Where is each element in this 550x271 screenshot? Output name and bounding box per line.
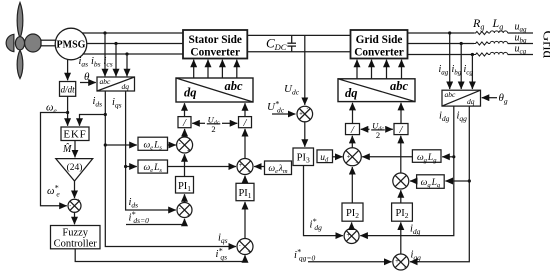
svg-text:ibg: ibg [452, 64, 462, 77]
summing junction grid d error [344, 229, 359, 244]
svg-text:ids: ids [93, 96, 103, 109]
wire grid Udc/2 to divR [387, 128, 393, 130]
wire dqabc to converter 3 [221, 60, 223, 78]
svg-text:i*ds=0: i*ds=0 [129, 210, 150, 225]
svg-text:EKF: EKF [63, 129, 86, 141]
wire stator phase c [83, 53, 184, 55]
block fuzzy controller [51, 226, 101, 250]
svg-text:abc: abc [390, 79, 409, 93]
wire i_dg to wLg1 [442, 156, 454, 158]
label Udc/2 stator [208, 115, 220, 134]
wire u_d to grid sum d [333, 156, 343, 158]
wire grid divL to dqabc [352, 103, 354, 124]
wire DC rail top [247, 34, 350, 36]
block PI3 [293, 148, 314, 166]
svg-text:θg: θg [499, 92, 508, 106]
svg-text:Grid: Grid [540, 31, 550, 59]
label Udc/2 grid [372, 121, 384, 140]
wire Udc sense [304, 35, 306, 105]
wire PI2R to grid sum q [400, 190, 402, 203]
inductor Lg phase b [490, 41, 508, 43]
svg-text:+: + [187, 149, 191, 155]
svg-text:ics: ics [104, 56, 113, 69]
svg-text:ibs: ibs [91, 56, 101, 69]
node omega_e branch [66, 111, 69, 114]
svg-text:idg: idg [410, 224, 421, 237]
block omega_g Lg 2 [417, 175, 445, 189]
wire i_qg vertical [410, 106, 469, 262]
wire stator phase b [87, 43, 183, 45]
PMSG generator [55, 28, 87, 60]
summing junction stator q error [237, 239, 253, 255]
svg-text:-: - [69, 204, 71, 210]
wire stator phase a [82, 32, 183, 34]
wire wLg1 to grid sum d [362, 156, 412, 158]
wire lambda to sum q [254, 166, 264, 168]
wire wLs1 to sum d [168, 144, 176, 146]
svg-text:Rg: Rg [472, 16, 484, 32]
svg-text:-: - [239, 243, 241, 249]
svg-text:iag: iag [439, 64, 449, 77]
svg-text:+: + [77, 199, 81, 205]
inductor Lg phase a [490, 31, 508, 33]
wire grid q error to PI2R [400, 222, 402, 254]
svg-text:ids: ids [129, 197, 139, 210]
svg-text:i*qs: i*qs [216, 247, 228, 262]
svg-text:Stator Side: Stator Side [188, 34, 241, 46]
wind turbine [6, 3, 41, 79]
wire grid dqabc to converter 2 [371, 60, 373, 79]
wire Udc sum to PI3 [304, 122, 306, 147]
svg-text:dq: dq [467, 97, 475, 106]
node i_qs wL branch [124, 165, 127, 168]
wire EKF to (24) [74, 141, 76, 158]
block omega_g Lg 1 [412, 150, 441, 164]
svg-text:-: - [355, 239, 357, 245]
svg-text:+: + [248, 250, 252, 256]
node tap b [114, 42, 117, 45]
node i_dg wLg branch [452, 155, 455, 158]
block omega_e lambda_m [265, 161, 292, 175]
svg-text:+: + [239, 163, 243, 169]
wire DC rail bottom [247, 51, 350, 53]
wire grid phase b [408, 41, 534, 45]
sum signs [69, 107, 406, 271]
svg-text:d/dt: d/dt [61, 85, 76, 95]
wire PI1R to sum q [244, 176, 246, 184]
svg-text:Controller: Controller [54, 238, 98, 249]
wire PI3 to i_dg ref [304, 166, 343, 236]
wire i_dg vertical [360, 106, 454, 236]
block (24) triangle [56, 159, 93, 181]
svg-text:+: + [395, 259, 399, 265]
wire dqabc to converter 1 [193, 60, 195, 78]
wire wLs2 to sum q [168, 166, 237, 168]
svg-text:Fuzzy: Fuzzy [62, 227, 88, 238]
svg-text:θ: θ [84, 71, 90, 83]
svg-text:-: - [356, 160, 358, 166]
wire i_qg to wLg2 [445, 180, 469, 182]
node grid tap b [460, 42, 463, 45]
svg-text:ucg: ucg [515, 44, 527, 56]
inductor Lg phase c [490, 52, 508, 54]
wire divL to dqabc [184, 103, 186, 116]
svg-text:abc: abc [225, 79, 244, 93]
wire i_ds vertical [105, 91, 236, 247]
wire grid Udc/2 to divL [361, 128, 370, 130]
block div left grid [346, 124, 360, 136]
wire grid d error to PI2L [351, 222, 353, 228]
node i_ds wL branch [104, 143, 107, 146]
summing junction stator d decouple [177, 137, 193, 153]
svg-text:ias: ias [79, 56, 89, 69]
wire d/dt to EKF [67, 96, 69, 126]
svg-text:PMSG: PMSG [57, 40, 86, 51]
wire dqabc to converter 2 [207, 60, 209, 78]
svg-text:iqs: iqs [112, 97, 122, 110]
svg-text:-: - [179, 141, 181, 147]
wire sum d to divL [184, 129, 186, 137]
svg-text:-: - [179, 206, 181, 212]
node tap a [103, 31, 106, 34]
block omega_e Ls 1 [138, 137, 168, 151]
wire sum d error to PI1L [184, 194, 186, 202]
svg-text:ω*e: ω*e [47, 184, 60, 199]
summing junction stator d error [177, 203, 192, 218]
svg-text:2: 2 [376, 130, 380, 140]
svg-text:+: + [299, 112, 303, 118]
svg-text:M̂: M̂ [62, 142, 72, 155]
wire fuzzy to i_qs ref [75, 249, 245, 262]
wire i_ds to EKF [80, 115, 106, 126]
wire (24) to speed sum [74, 181, 76, 198]
wire theta_g input [482, 97, 497, 99]
svg-text:i*qg=0: i*qg=0 [294, 248, 315, 263]
block EKF [61, 127, 89, 141]
block grid side converter [351, 30, 408, 59]
svg-text:dq: dq [122, 82, 130, 91]
shaft [41, 40, 56, 46]
wire PI1L to sum d [184, 154, 186, 176]
svg-text:Udc: Udc [284, 83, 300, 97]
wire speed sum to fuzzy [74, 212, 76, 224]
svg-text:dq: dq [184, 86, 197, 100]
wire i_ds ref [126, 219, 185, 225]
node tap c [125, 52, 128, 55]
wire grid dqabc to converter 1 [356, 60, 358, 79]
svg-text:abc: abc [445, 90, 457, 99]
block PI1 left [176, 177, 194, 194]
node grid tap c [471, 53, 474, 56]
wire i_qg ref [308, 261, 392, 263]
block PI1 right [236, 183, 254, 200]
svg-text:abc: abc [100, 77, 112, 86]
wire sum q to divR [244, 129, 246, 159]
wire i_cg tap [471, 55, 473, 90]
svg-text:CDC: CDC [266, 36, 287, 53]
wire i_cs tap [126, 54, 128, 76]
svg-text:+: + [187, 213, 191, 219]
wire i_bs tap [115, 44, 117, 77]
svg-text:+: + [347, 233, 351, 239]
svg-text:Lg: Lg [492, 16, 504, 32]
node i_ds EKF branch [104, 113, 107, 116]
svg-text:-: - [248, 170, 250, 176]
block u_d [317, 150, 333, 164]
wire i_ds to wLs1 [105, 144, 137, 146]
svg-text:iqg: iqg [411, 250, 422, 263]
svg-text:+: + [347, 155, 351, 161]
block d/dt [60, 82, 76, 97]
wire i_as tap [104, 33, 106, 76]
svg-text:idg: idg [439, 111, 450, 124]
wire omega_e feedback rail [41, 113, 68, 206]
wire grid sum q to divR [400, 136, 402, 173]
block div right grid [394, 124, 408, 136]
summing junction speed [68, 199, 81, 212]
svg-text:Grid Side: Grid Side [356, 34, 403, 46]
svg-text:i*dg: i*dg [310, 217, 323, 232]
wire divR to dqabc [244, 103, 246, 116]
resistor Rg phase c [474, 53, 490, 56]
wire i_qs vertical [126, 91, 176, 210]
node i_qg wLg branch [468, 179, 471, 182]
wire Udc ref input [272, 113, 295, 115]
block PI2 right [392, 203, 413, 221]
resistor Rg phase a [474, 31, 490, 34]
wire grid phase c [408, 52, 534, 56]
wire PMSG to d/dt [67, 59, 69, 80]
node grid tap a [448, 31, 451, 34]
svg-text:2: 2 [211, 124, 215, 134]
wire grid dqabc to converter 4 [401, 60, 403, 79]
block stator side converter [183, 30, 247, 59]
svg-text:Converter: Converter [190, 46, 240, 58]
svg-text:-: - [307, 107, 309, 113]
wire Udc/2 to divL [192, 122, 205, 124]
wire i_ag tap [449, 33, 451, 89]
wire PI2L to grid sum d [351, 167, 353, 203]
summing junction grid q error [393, 254, 409, 270]
wire wLg2 to grid sum q [410, 180, 417, 182]
summing junction stator q decouple [237, 159, 253, 175]
wire grid sum d to divL [351, 136, 353, 148]
dq to abc transform grid [338, 79, 415, 102]
svg-text:iqs: iqs [218, 233, 228, 246]
block div right stator [239, 117, 252, 129]
wire grid dqabc to converter 3 [386, 60, 388, 79]
abc to dq transform (stator measurement) [97, 77, 135, 91]
summing junction grid d decouple [343, 148, 361, 166]
svg-text:Converter: Converter [354, 46, 404, 58]
wire sum q error to PI1R [244, 202, 246, 239]
wire theta input [80, 82, 96, 84]
wire dqabc to converter 4 [236, 60, 238, 78]
svg-text:dq: dq [345, 86, 358, 100]
svg-text:-: - [404, 265, 406, 271]
wire i_bg tap [460, 44, 462, 90]
wire Udc/2 to divR [222, 122, 237, 124]
capacitor C_DC [287, 35, 296, 51]
wire grid divR to dqabc [400, 103, 402, 124]
resistor Rg phase b [474, 42, 490, 45]
block div left stator [178, 117, 191, 129]
dq to abc transform stator [176, 78, 253, 102]
svg-text:iqg: iqg [457, 111, 468, 124]
svg-text:U*dc: U*dc [267, 100, 285, 115]
summing junction grid q decouple [393, 173, 409, 189]
block omega_e Ls 2 [138, 160, 168, 174]
wire grid phase a [408, 31, 534, 35]
abc to dq transform (grid measurement) [442, 90, 481, 106]
wire i_qs to wLs2 [126, 166, 137, 168]
svg-text:(24): (24) [67, 162, 83, 173]
summing junction Udc [297, 106, 313, 122]
block PI2 left [342, 203, 363, 221]
